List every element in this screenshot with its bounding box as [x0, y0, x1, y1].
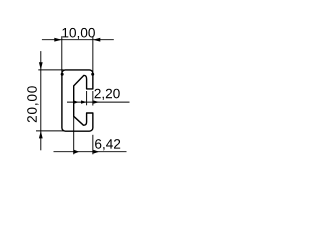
dimension 6,42 (bottom)	[54, 116, 127, 154]
dimension 10,00 (top)	[42, 36, 114, 74]
text 20,00 rotated	[27, 86, 38, 122]
arrow at right (tip at face ext, head right)	[93, 150, 99, 154]
small arrow at cavity left wall	[74, 101, 79, 104]
ext line bottom	[36, 130, 64, 132]
dim line	[54, 151, 127, 153]
dimension 2,20 (slot lip)	[67, 91, 130, 106]
dim line	[42, 39, 114, 41]
ext line at outer face	[92, 91, 94, 106]
corner dots	[61, 73, 64, 76]
ext line at cavity wall	[86, 91, 88, 105]
ext line at cavity left wall (extends wall downward)	[73, 116, 75, 154]
text 2,20	[94, 89, 119, 100]
dimension 20,00 (left)	[36, 51, 64, 150]
ext line right	[92, 36, 94, 74]
profile outline (C-slot extrusion section)	[62, 70, 93, 131]
dim line	[67, 101, 130, 103]
dim line	[40, 51, 42, 150]
ext line top	[38, 69, 63, 71]
arrow top (points down)	[39, 62, 43, 69]
arrow bottom (points up)	[39, 131, 43, 138]
arrow at left (tip at wall, head right)	[74, 150, 79, 154]
text 6,42	[95, 139, 120, 150]
arrow at cavity wall (points right)	[81, 100, 87, 103]
arrow at outer face (points left, head right)	[93, 100, 99, 103]
text 10,00	[62, 28, 94, 39]
arrow right (tip at right ext)	[93, 38, 100, 42]
ext line at outer right face	[92, 135, 94, 155]
ext line left	[61, 36, 63, 74]
arrow left (tip at left ext)	[54, 38, 61, 42]
